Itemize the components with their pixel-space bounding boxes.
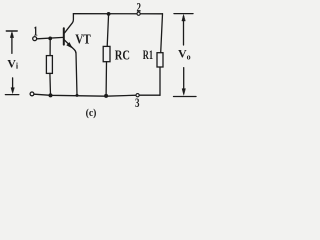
node 1 terminal circle: [33, 37, 37, 41]
wire: bias resistor to bottom rail: [49, 73, 52, 95]
wire: RC to bottom rail: [105, 62, 107, 96]
voltage Vi indicator up arrow: [10, 32, 13, 54]
svg-text:RC: RC: [115, 48, 130, 63]
svg-text:Vo: Vo: [178, 47, 191, 62]
wire: R1 to bottom rail: [159, 67, 161, 95]
node 2 terminal circle: [137, 12, 140, 15]
transistor VT base bar: [63, 28, 65, 44]
voltage Vi indicator bottom bar: [5, 94, 18, 96]
wire: junction down to bias resistor: [49, 38, 51, 55]
node: input bottom terminal circle: [30, 92, 34, 96]
transistor VT emitter arrowhead: [67, 43, 72, 48]
junction dot on bottom rail (RC): [104, 94, 108, 98]
voltage Vi indicator down arrow: [11, 78, 14, 94]
transistor VT collector lead: [65, 14, 74, 33]
voltage Vo indicator down arrow: [182, 68, 185, 95]
voltage Vi indicator top bar: [6, 30, 17, 32]
junction dot at RC top: [107, 12, 111, 16]
voltage Vo indicator up arrow: [182, 15, 185, 45]
svg-text:3: 3: [135, 95, 140, 110]
svg-text:R1: R1: [143, 48, 153, 62]
svg-text:Vi: Vi: [7, 56, 19, 70]
svg-text:(c): (c): [86, 108, 97, 119]
resistor R1 body: [157, 53, 163, 67]
junction: emitter at bottom rail: [76, 94, 79, 97]
resistor RC body: [103, 46, 110, 61]
wire: top rail (collector to R1): [73, 13, 162, 15]
node 3 terminal circle: [136, 94, 139, 97]
junction dot at base node: [48, 37, 52, 41]
wire: top rail down to RC: [107, 14, 108, 47]
resistor (input bias) body: [46, 56, 52, 74]
junction dot on bottom rail (bias resistor): [49, 93, 53, 97]
transistor VT emitter lead: [64, 40, 77, 96]
svg-text:VT: VT: [75, 32, 91, 47]
wire: top rail corner down to R1: [161, 14, 163, 53]
voltage Vo indicator bottom bar: [174, 96, 197, 98]
wire: bottom rail: [34, 94, 160, 96]
voltage Vo indicator top bar: [174, 13, 193, 15]
wire: node 1 to transistor base: [37, 37, 63, 38]
